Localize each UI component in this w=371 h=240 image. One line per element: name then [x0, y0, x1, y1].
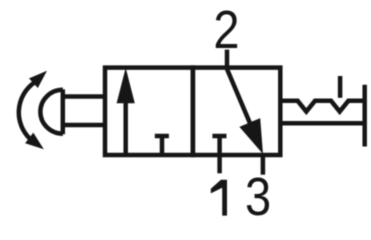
plunger top line — [63, 94, 105, 99]
curved double arrow arc — [19, 83, 34, 139]
curved arrow top head — [29, 71, 47, 88]
port label 1 (custom Arial-style one) — [211, 180, 227, 216]
detent frame bar — [362, 85, 367, 147]
detent frame bottom line — [280, 121, 364, 126]
port 1 stub — [217, 155, 222, 173]
detent pin — [338, 76, 343, 98]
svg-text:3: 3 — [245, 166, 271, 216]
curved arrow bottom head — [25, 133, 44, 150]
svg-text:2: 2 — [213, 0, 239, 60]
flow arrow head up (left box) — [117, 68, 135, 104]
flow arrow head diagonal (right box) — [239, 118, 263, 154]
flow arrow shaft 2->3 (right box) — [227, 69, 250, 123]
valve body left box — [105, 68, 193, 155]
flow arrow shaft (left box) — [123, 99, 128, 155]
blocked port T (left box) — [155, 136, 169, 155]
port 2 stub — [225, 50, 230, 68]
port 3 stub — [261, 155, 266, 175]
blocked port T (right box, port 1) — [212, 136, 226, 155]
plunger bottom line — [63, 123, 105, 128]
push button flat side — [61, 89, 66, 134]
push button semicircle — [40, 90, 62, 134]
detent notched line with two V notches — [280, 101, 364, 112]
valve body right box — [193, 68, 280, 155]
